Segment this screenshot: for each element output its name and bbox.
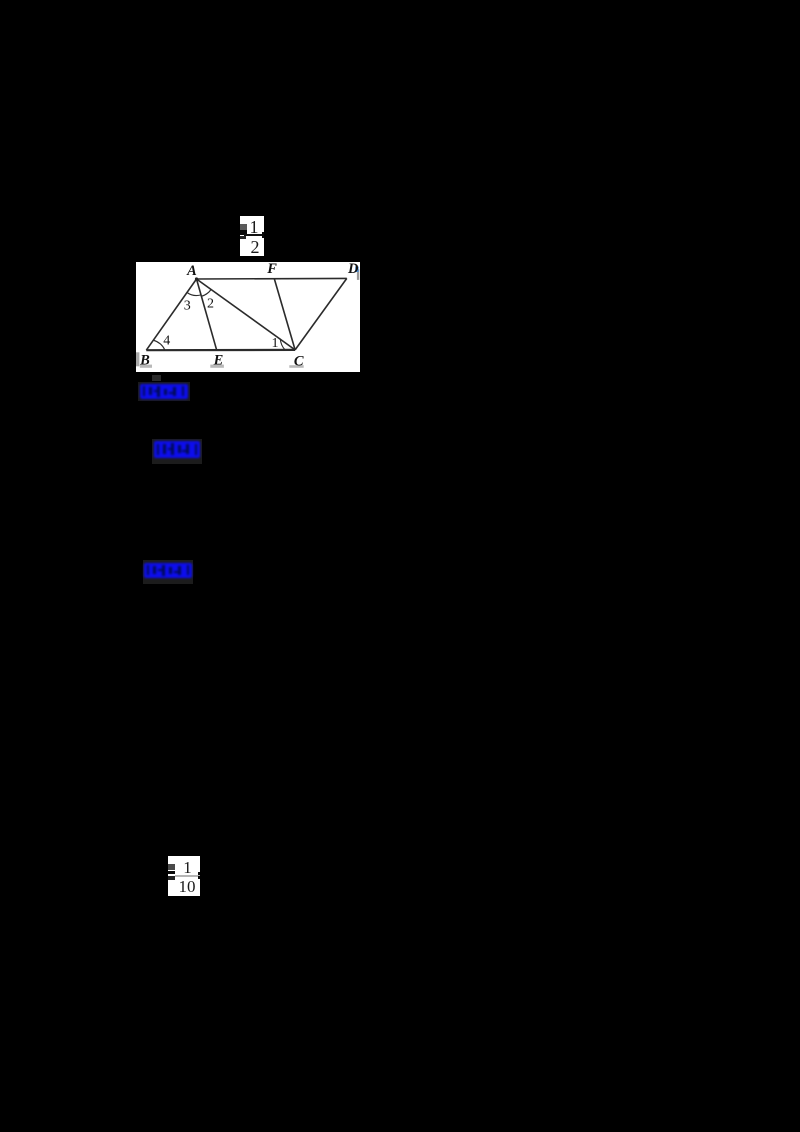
blue label 2: [154, 441, 200, 458]
svg-text:4: 4: [163, 333, 170, 348]
wire side AB: [146, 279, 196, 350]
fraction bar 1/2: [244, 234, 264, 237]
right edge black dash lower of 1/10: [198, 876, 200, 879]
gray bar left edge near B: [136, 352, 139, 366]
gray smudge under E: [210, 365, 224, 368]
blue label 3 backdrop: [143, 560, 193, 584]
numerator 1: [240, 218, 264, 236]
arc angle 4 at B: [153, 340, 165, 350]
blue label 2 backdrop: [152, 439, 202, 464]
arc angle 1 at C: [280, 339, 285, 350]
gray smudge under C: [289, 365, 303, 368]
svg-text:A: A: [186, 263, 197, 279]
black dash left upper of 1/10: [168, 871, 175, 875]
right edge black mark of 1/2: [262, 232, 265, 239]
gray block left of fraction 1/2: [240, 224, 247, 230]
blue label 1: [140, 384, 188, 399]
wire bottom BC: [146, 349, 295, 352]
arc angle 2 at A: [201, 290, 211, 297]
wire top AD: [196, 277, 346, 280]
fraction bar 1/10: [175, 875, 200, 876]
right edge black dash upper of 1/10: [198, 872, 200, 875]
black block left of fraction 1/2: [240, 230, 247, 235]
gray smudge under B: [139, 365, 151, 368]
wire side DC: [295, 278, 347, 350]
blue label 1 backdrop: [138, 382, 190, 401]
svg-text:3: 3: [183, 299, 190, 314]
wire cevian FC: [274, 278, 295, 350]
wire cevian AE: [196, 279, 216, 350]
svg-text:B: B: [139, 352, 150, 368]
fraction 1/10 image box: [168, 856, 201, 896]
numerator 1 of 1/10: [176, 859, 200, 876]
black dash left lower of 1/10: [168, 876, 176, 880]
svg-text:E: E: [212, 352, 223, 368]
gray mark above blue label 1: [152, 375, 161, 381]
geometry figure image box: [136, 262, 360, 372]
svg-text:1: 1: [271, 336, 278, 351]
svg-text:C: C: [293, 354, 303, 370]
denominator 10 of 1/10: [175, 878, 200, 895]
dark block left lower of fraction 1/2: [240, 236, 246, 240]
denominator 2: [240, 238, 264, 256]
svg-text:D: D: [347, 262, 359, 277]
vertex dot A: [194, 277, 197, 280]
blue mark near D: [355, 267, 358, 273]
svg-text:2: 2: [207, 296, 214, 311]
gray block left of fraction 1/10: [168, 864, 175, 870]
wire diagonal AC: [196, 279, 295, 350]
blue label 3: [144, 563, 192, 578]
fraction 1/2 image box: [240, 216, 264, 257]
gray bar right edge near D: [356, 269, 358, 280]
arc angle 3 at A: [187, 293, 201, 296]
svg-text:F: F: [266, 262, 277, 277]
